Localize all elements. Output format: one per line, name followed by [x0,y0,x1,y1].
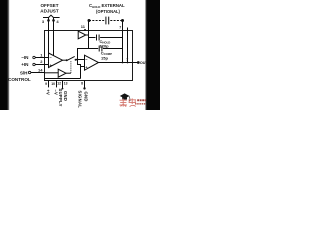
svg-text:13: 13 [64,82,68,86]
external Chold capacitor plates [106,17,109,25]
capacitor C_COMP 15p plates [99,46,102,52]
offset pin 3 wire [48,18,50,54]
right black border bar [146,0,160,110]
svg-text:ADJUST: ADJUST [40,9,59,14]
driver tip wire [66,72,71,74]
A1 output wire [63,59,68,61]
svg-text:GND: GND [63,91,68,101]
svg-text:8: 8 [81,82,83,86]
pin 7 rail wire [122,21,124,63]
S/H control wire inside [45,72,59,74]
Chold internal branch wire [89,37,123,39]
bottom pin stub supply gnd [62,81,64,89]
offset adjust jumper wire with caret [43,15,60,17]
logo red character 2 [129,98,136,106]
rail junction dot 2 [127,62,129,64]
text labels [8,3,148,108]
external Chold dashed wire left [89,20,104,22]
bottom pin stub signal gnd [84,81,86,89]
switch blade [67,56,75,60]
svg-text:15p: 15p [101,55,108,60]
S/H control wire outside [31,72,45,74]
bottom pin stub -V [56,81,58,88]
bottom pin stub +V [48,81,50,88]
cap output rail wire [127,28,129,63]
svg-text:10: 10 [51,82,55,86]
svg-text:−V: −V [54,90,59,95]
logo small red text row 1 [137,99,146,101]
+IN terminal [33,63,35,65]
rail junction dot 1 [122,62,124,64]
signal gnd pin dot [83,87,85,89]
svg-text:120p: 120p [100,44,110,49]
svg-text:SIGNAL: SIGNAL [78,91,83,109]
wire buffer tip to rail [86,34,89,36]
top edge node dot [84,29,86,31]
svg-text:14: 14 [38,68,43,73]
wire switch to A2 [76,59,85,61]
svg-text:CONTROL: CONTROL [8,77,31,82]
A2 lower input wire [81,66,85,68]
switch contact dot [75,59,77,61]
svg-text:9: 9 [45,82,47,86]
pin 11 stub wire [88,21,90,49]
Ccomp branch wire [89,48,123,50]
svg-text:GND: GND [83,92,88,102]
ext cap left dot [88,19,91,22]
logo red character 1 [120,99,128,107]
left black border bar [0,0,8,110]
jog wire from cap rail down to switch node [78,49,89,60]
svg-text:+IN: +IN [21,62,29,67]
external Chold dashed wire right [110,20,122,22]
capacitor C_HOLD 120p plates [97,35,100,41]
-IN terminal [33,56,35,58]
svg-text:S/H: S/H [20,71,28,76]
logo mortarboard cap [120,93,130,98]
junction dots [47,19,140,90]
input terminal circles [28,56,35,73]
svg-text:7: 7 [119,25,121,29]
op-amp A1 input buffer [49,53,63,68]
offset pin 4 dot [52,19,55,22]
+IN input wire [35,64,48,66]
switch node junction dot [76,59,78,61]
watermark logo [120,93,147,106]
output wire [99,62,138,64]
A2 lower input wire to gnd rail [78,60,81,79]
dotted actuation line [70,61,72,73]
IC outline box [45,31,133,81]
OUT terminal dot [137,61,140,64]
svg-text:OFFSET: OFFSET [40,3,58,8]
ext cap right dot [121,19,124,22]
feedback buffer triangle [78,31,86,39]
S/H terminal [28,71,30,73]
offset pin 3 dot [47,19,50,22]
offset pin 4 wire [53,18,55,57]
svg-text:SUPPLY: SUPPLY [58,89,63,107]
A1 output node dot [66,59,68,61]
logo small red text row 2 [135,103,145,105]
-IN input wire [35,57,48,59]
switch driver triangle [58,69,66,77]
op-amp A2 output amp [85,55,99,70]
supply gnd pin dot [62,88,64,90]
svg-text:(OPTIONAL): (OPTIONAL) [96,9,121,14]
svg-text:+V: +V [46,90,51,95]
internal gnd rail wire [45,78,81,80]
svg-text:−IN: −IN [21,55,29,60]
svg-text:OUT: OUT [140,61,149,65]
svg-text:12: 12 [57,82,61,86]
